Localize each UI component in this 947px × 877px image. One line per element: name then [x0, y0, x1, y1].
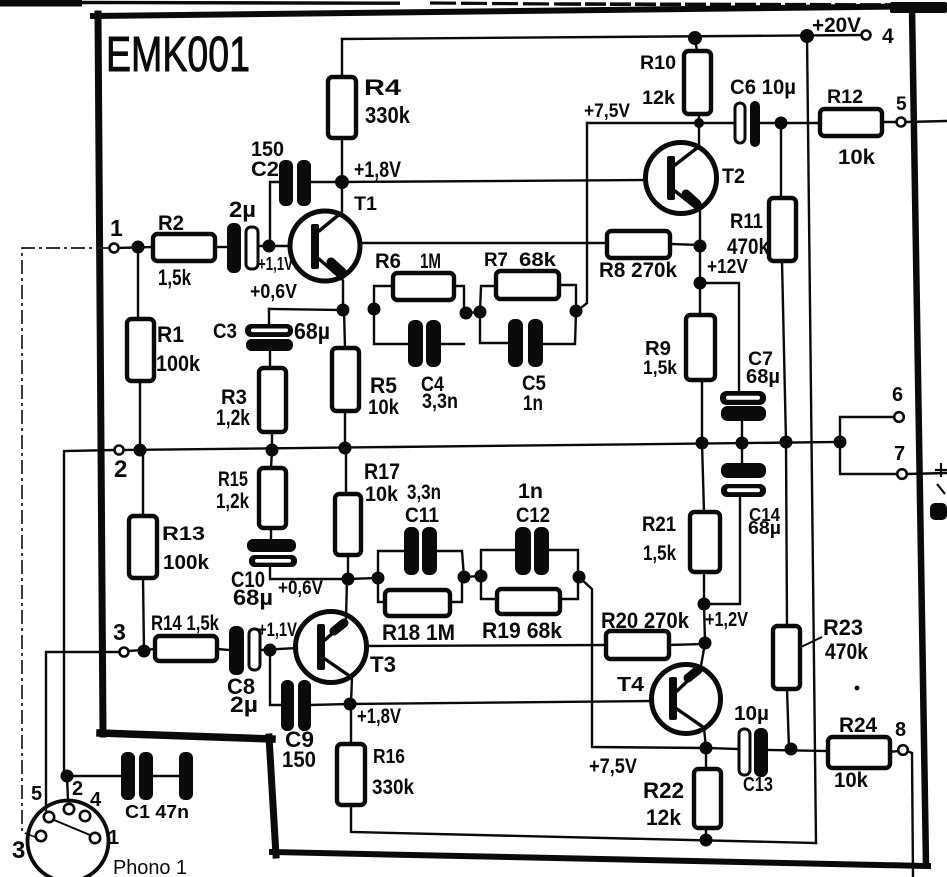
wire: terminal 8 output down right edge: [907, 751, 913, 877]
wire: R14 to capacitor C8: [217, 649, 229, 650]
svg-text:+1,8V: +1,8V: [354, 157, 401, 182]
wire: R22 top lead: [705, 748, 707, 769]
resistor R9: [686, 315, 715, 380]
svg-text:1n: 1n: [518, 480, 543, 503]
svg-text:68µ: 68µ: [233, 585, 273, 610]
wire: mid rail node to terminal 7: [840, 442, 897, 474]
node: R8 / T2 emitter junction: [694, 240, 707, 253]
wire: ground mid rail terminal 2 to node 6/7: [123, 442, 840, 450]
svg-text:+1,2V: +1,2V: [705, 609, 749, 631]
wire: R10 top lead to +20V rail: [695, 39, 697, 51]
node: C6 / R12 / R11 junction: [775, 117, 788, 130]
capacitor C14 electrolytic: [721, 463, 766, 497]
DIN pin 1: [90, 833, 100, 843]
svg-text:1M: 1M: [420, 250, 441, 273]
resistor R17: [335, 494, 361, 555]
node: T3 base junction after C8: [264, 644, 277, 657]
svg-text:68µ: 68µ: [294, 318, 330, 344]
svg-text:330k: 330k: [365, 102, 410, 128]
terminal 7: [897, 469, 907, 479]
wire: DIN link pin 5 to pin 1: [54, 820, 90, 835]
wire: node +0,6V to C3 and T1 emitter: [269, 309, 343, 310]
wire: R16 bottom lead and bottom supply rail: [351, 805, 816, 843]
svg-text:+7,5V: +7,5V: [584, 101, 630, 122]
svg-text:C3: C3: [213, 320, 237, 343]
resistor R4: [328, 77, 356, 138]
svg-text:3,3n: 3,3n: [407, 481, 441, 504]
node: terminal 3 / R13 junction: [138, 645, 151, 658]
wire: R12 right lead to terminal 5: [882, 121, 896, 123]
DIN pin 2: [64, 804, 74, 814]
wire: R15 top lead to mid rail: [271, 450, 272, 468]
scan artifact: plus scribble at right edge below terminal 7: [935, 463, 947, 494]
node: +1,2V junction at T4 emitter: [698, 598, 711, 611]
node: C1 / DIN pin 2 junction: [61, 770, 74, 783]
wire: +1,2V node to R21: [703, 572, 705, 604]
node: R19/C12 right feedback junction: [573, 571, 586, 584]
svg-text:1: 1: [108, 827, 119, 849]
svg-text:3: 3: [12, 837, 25, 864]
wire: T3 collector to lower +1,8V node: [351, 677, 352, 704]
wire: C4 right lead: [437, 343, 464, 345]
resistor R8: [607, 231, 670, 258]
node: R6/C4 right junction: [460, 307, 473, 320]
wire: R20 node to +1,2V node: [704, 604, 705, 643]
node: +12V junction at T2 emitter: [694, 277, 707, 290]
wire: R3 bottom lead to mid rail: [271, 432, 273, 450]
wire: C7 bottom plate to mid rail: [741, 421, 743, 443]
wire: R18 right lead: [448, 577, 462, 602]
capacitor C1 plates: [121, 752, 193, 800]
wire: C9 right plate to node +1,8V lower: [311, 704, 350, 705]
wire: R18 left lead: [378, 578, 384, 602]
svg-text:Phono 1: Phono 1: [113, 857, 187, 877]
wire: T2 collector to R10: [698, 112, 700, 146]
terminal 1 input: [110, 244, 119, 253]
svg-text:+12V: +12V: [707, 256, 749, 278]
svg-text:2: 2: [114, 456, 127, 483]
wire: R7 left lead: [480, 286, 496, 312]
DIN pin 3: [36, 831, 46, 841]
wire: R4 bottom lead to node +1,8V: [341, 138, 343, 182]
node: R5 / R17 mid rail junction: [339, 442, 352, 455]
wire: C12 left lead: [481, 550, 514, 576]
wire: C12 right lead: [550, 550, 578, 577]
border: right edge of schematic frame: [912, 9, 926, 864]
svg-text:+1,8V: +1,8V: [357, 705, 401, 728]
svg-text:R23: R23: [823, 615, 863, 640]
svg-text:+7,5V: +7,5V: [589, 755, 637, 778]
wire: R22 bottom lead to bottom rail: [705, 828, 707, 840]
capacitor C8 input coupling plates: [229, 626, 260, 675]
wire: terminal 1 to DIN pin 3: [22, 248, 110, 837]
wire: R21 top lead to mid rail: [702, 443, 704, 512]
capacitor C10 electrolytic: [247, 539, 297, 567]
wire: C8 to T3 base: [261, 648, 297, 650]
node: input 1 / R1 junction: [132, 241, 145, 254]
wire: T4 collector to +7,5V lower node: [704, 728, 706, 748]
svg-text:470k: 470k: [825, 639, 869, 664]
svg-text:R22: R22: [643, 778, 684, 803]
resistor R6: [393, 273, 454, 300]
capacitor C12 plates: [515, 527, 549, 575]
wire: T4 emitter to R20 node: [701, 643, 705, 666]
wire: R19 left lead: [481, 576, 496, 599]
node: T1 base junction: [263, 240, 276, 253]
wire: +20V vertical rail right side down to bottom rail: [807, 36, 816, 843]
node: R23 bottom / C13 / R24 junction: [785, 743, 798, 756]
node: terminal 2 / R1 / R13 junction: [134, 444, 147, 457]
wire: C1 right lead to stub plate: [153, 775, 179, 777]
wire: C2 right plate to node +1,8V: [310, 181, 342, 183]
wire: R6 right lead: [454, 286, 464, 313]
resistor R24: [828, 737, 890, 768]
svg-text:R6: R6: [375, 250, 401, 273]
wire: node +1,8V to T2 base: [342, 180, 646, 182]
wire: R24 right lead to terminal 8: [890, 751, 898, 752]
node: R11/R23 on mid rail: [780, 436, 793, 449]
scan artifact: top-right border corner blob: [890, 2, 947, 13]
capacitor 2u input coupling plates: [227, 223, 258, 273]
svg-text:10k: 10k: [365, 483, 398, 506]
svg-text:10k: 10k: [368, 396, 399, 419]
svg-text:10µ: 10µ: [734, 703, 769, 725]
wire: C14 top plate to mid rail: [741, 443, 743, 463]
svg-text:R8 270k: R8 270k: [599, 259, 677, 282]
DIN pin 5: [44, 812, 54, 822]
node: +7,5V lower junction at T4 collector: [700, 742, 713, 755]
svg-text:1,5k: 1,5k: [643, 542, 676, 565]
wire: terminal 3 to DIN pin 5: [46, 652, 119, 810]
svg-text:1: 1: [110, 215, 123, 241]
scan artifact: right edge blob near node 7: [930, 503, 947, 520]
resistor R1: [127, 319, 154, 381]
wire: C4 left lead: [374, 309, 408, 344]
wire: T1 emitter down to +0,6V node: [342, 281, 344, 310]
wire: C5 right lead: [542, 312, 576, 344]
node: R20 / T4 emitter junction: [699, 637, 712, 650]
svg-text:R11: R11: [730, 210, 763, 233]
wire: C10 to R15: [270, 528, 272, 539]
wire: C2 left plate down to T1 base node: [270, 182, 281, 242]
svg-text:8: 8: [895, 719, 906, 741]
border: top edge of schematic frame: [93, 6, 947, 16]
node: R7/C5 right feedback junction: [570, 305, 583, 318]
transistor T4: [652, 665, 721, 734]
resistor R5: [332, 348, 359, 411]
wire: +1,2V node to C14 bottom plate: [704, 497, 740, 604]
wire: lower +0,6V node to C10: [270, 567, 348, 579]
wire: R9 bottom lead to mid rail: [701, 380, 703, 443]
scan artifact: top edge line: [0, 0, 900, 7]
svg-text:+20V: +20V: [812, 14, 861, 37]
svg-text:68k: 68k: [519, 249, 556, 271]
wire: C11 left lead: [378, 551, 405, 578]
capacitor C2 plates: [279, 160, 311, 206]
terminal 8 output: [898, 745, 908, 755]
wire: node link between R6/C4 and R7/C5: [466, 312, 480, 313]
svg-text:100k: 100k: [163, 552, 210, 574]
node: R19/C12 left junction: [475, 570, 488, 583]
svg-text:3: 3: [113, 619, 126, 645]
resistor R2: [153, 234, 215, 261]
wire: R16 top lead: [350, 705, 352, 744]
wire: +7,5V lower node to C13: [706, 748, 739, 749]
wire: C13 to R24: [768, 750, 828, 751]
svg-text:R7: R7: [484, 249, 508, 271]
resistor R10: [684, 51, 711, 114]
wire: +7,5V feedback down to C5/R7 node: [577, 123, 587, 311]
svg-text:5: 5: [31, 783, 42, 805]
resistor R7: [496, 271, 559, 299]
wire: T3 base feedback line to R20: [366, 645, 606, 646]
wire: terminal 2 to C1 and DIN pin 2: [64, 450, 114, 801]
wire: lower feedback from T4 collector node to C12/R19 node: [580, 578, 706, 748]
node: R10 top on +20V rail: [688, 31, 702, 45]
wire: R1 bottom lead: [139, 381, 141, 450]
svg-text:12k: 12k: [646, 805, 682, 830]
border: bottom-left step vertical: [269, 737, 276, 855]
resistor R19: [497, 589, 560, 614]
svg-text:68µ: 68µ: [748, 518, 781, 538]
wire: C6 right plate to R12: [759, 122, 820, 124]
svg-text:R24: R24: [839, 714, 877, 737]
wire: R20 right lead to T4 emitter node: [669, 644, 705, 645]
wire: T1 collector up to +1,8V node: [341, 182, 343, 212]
svg-text:C6 10µ: C6 10µ: [730, 76, 796, 99]
border: bottom edge of schematic frame: [272, 852, 928, 866]
wire: +12V node to C7 top plate: [700, 283, 739, 391]
resistor R13: [129, 516, 157, 578]
svg-text:R21: R21: [642, 513, 676, 536]
transistor T2: [646, 143, 717, 214]
terminal 5 output: [897, 118, 906, 127]
wire: capacitor 2u to T1 base: [259, 245, 291, 247]
wire: R1 top lead: [137, 247, 139, 319]
svg-text:T4: T4: [617, 674, 645, 696]
wire: R17 top lead: [345, 448, 347, 494]
wire: R2 to capacitor 2u: [215, 246, 228, 248]
svg-text:T1: T1: [354, 194, 377, 215]
svg-text:R18 1M: R18 1M: [382, 620, 455, 645]
wire: lower node +1,8V to T4 base: [350, 701, 651, 704]
node: R18/C11 left junction: [372, 572, 385, 585]
svg-text:R14 1,5k: R14 1,5k: [151, 612, 219, 635]
wire: R23 bottom lead: [787, 689, 789, 749]
wire: T3 emitter to node +0,6V lower: [346, 579, 347, 618]
svg-text:R10: R10: [640, 53, 676, 74]
node: +1,8V junction at T1 collector: [335, 175, 349, 189]
wire: +7,5V node horizontal at T2 collector: [587, 122, 735, 124]
wire: R13 bottom lead: [143, 578, 144, 651]
wire: R5 bottom lead to mid rail: [344, 411, 346, 448]
svg-text:1,5k: 1,5k: [158, 265, 192, 290]
svg-text:C2: C2: [251, 158, 279, 181]
wire: +20V supply rail top: [342, 35, 862, 39]
node: R22 bottom on bottom rail: [700, 834, 713, 847]
wire: C11 right lead: [436, 551, 464, 577]
node: +0,6V junction at T1 emitter: [337, 304, 350, 317]
svg-text:+1,1V: +1,1V: [258, 254, 293, 274]
wire: R5 top lead: [344, 310, 345, 348]
svg-text:R2: R2: [158, 212, 184, 235]
wire: node link between C11/R18 and C12/R19: [464, 576, 481, 577]
node: C7/C14 on mid rail: [736, 437, 749, 450]
svg-text:1,2k: 1,2k: [216, 490, 249, 513]
wire: C3 bottom to R3: [269, 351, 271, 368]
resistor R14: [155, 636, 217, 661]
svg-text:4: 4: [882, 25, 894, 48]
resistor R23: [773, 626, 800, 689]
node: R7/C5 left junction: [474, 306, 487, 319]
svg-text:2µ: 2µ: [229, 197, 256, 222]
resistor R20: [606, 631, 669, 659]
svg-text:R5: R5: [370, 373, 397, 398]
svg-text:+0,6V: +0,6V: [278, 578, 323, 599]
wire: R11 bottom lead down to R23 top: [782, 261, 787, 626]
resistor R11: [769, 198, 796, 261]
capacitor C7 electrolytic: [720, 391, 766, 421]
svg-text:+0,6V: +0,6V: [250, 281, 298, 303]
svg-text:R20 270k: R20 270k: [601, 608, 690, 633]
DIN pin 4: [80, 811, 90, 821]
svg-text:2: 2: [72, 778, 83, 800]
wire: terminal 5 output through border: [906, 121, 947, 122]
wire: mid rail node to terminal 6: [840, 417, 893, 442]
svg-text:R4: R4: [364, 75, 402, 100]
connector Phono 1 DIN body: [28, 801, 109, 877]
capacitor C13 electrolytic plates: [739, 728, 768, 777]
svg-text:R15: R15: [218, 468, 248, 491]
svg-text:2µ: 2µ: [230, 692, 258, 717]
wire: T3 base node down to C9 left plate: [270, 650, 281, 705]
svg-text:C11: C11: [405, 504, 439, 527]
wire: R8 right lead to T2 emitter: [670, 244, 700, 245]
svg-text:100k: 100k: [156, 351, 201, 376]
resistor R21: [690, 512, 720, 572]
node: R18/C11 right junction: [458, 571, 471, 584]
wire: terminal 1 to R2: [118, 247, 153, 248]
capacitor C4 plates: [408, 320, 441, 367]
svg-text:C12: C12: [516, 504, 550, 527]
wire: C3 top stub: [268, 309, 270, 325]
node: +1,8V lower junction at T3 collector: [344, 698, 357, 711]
svg-text:12k: 12k: [642, 88, 675, 109]
svg-text:3,3n: 3,3n: [422, 390, 458, 413]
capacitor C5 plates: [508, 319, 543, 367]
svg-text:R1: R1: [157, 322, 184, 347]
svg-text:68µ: 68µ: [746, 366, 780, 388]
svg-text:T2: T2: [722, 165, 745, 188]
node: +0,6V lower junction at T3 emitter: [342, 573, 355, 586]
svg-text:C13: C13: [743, 774, 773, 796]
wire: R7 right lead: [559, 285, 576, 311]
wire: R4 top lead to +20V rail: [341, 39, 343, 77]
svg-text:10k: 10k: [838, 146, 875, 169]
svg-text:4: 4: [90, 789, 102, 811]
svg-text:R19 68k: R19 68k: [482, 618, 563, 643]
capacitor C6 electrolytic plates: [735, 101, 760, 147]
wire: R6 left lead: [374, 286, 393, 309]
terminal 2: [115, 446, 124, 455]
node: R6/C4 left junction: [368, 303, 381, 316]
wire: R19 right lead: [559, 577, 578, 599]
wire: lower +0,6V node to RC network: [348, 578, 378, 579]
svg-text:6: 6: [892, 384, 903, 406]
resistor R16: [337, 744, 365, 805]
terminal 4 +20V: [862, 31, 871, 40]
resistor R12: [820, 109, 882, 136]
svg-text:10k: 10k: [834, 769, 868, 792]
svg-text:1,2k: 1,2k: [216, 405, 251, 430]
wire: C1 left lead: [67, 775, 121, 777]
wire: R17 bottom lead: [347, 555, 349, 579]
scan artifact: small mark right of R23: [855, 686, 860, 691]
wire: T2 emitter down through nodes to R9: [699, 211, 701, 315]
node: R9 bottom on mid rail: [696, 437, 709, 450]
wire: terminal 7 output through border: [907, 473, 947, 474]
capacitor C9 plates: [281, 680, 311, 731]
svg-text:150: 150: [282, 747, 316, 772]
svg-text:R13: R13: [162, 524, 205, 545]
capacitor C3 electrolytic: [245, 324, 293, 351]
resistor R3: [259, 368, 286, 432]
wire: C5 left lead: [480, 312, 509, 343]
terminal 6: [894, 412, 904, 422]
resistor R18: [385, 590, 450, 616]
svg-text:R17: R17: [364, 459, 400, 484]
svg-text:R9: R9: [645, 338, 671, 360]
wire: R11 top lead: [780, 123, 782, 198]
svg-text:R12: R12: [827, 87, 863, 108]
node: T2 collector / +7,5V junction: [694, 118, 704, 128]
svg-text:+1,1V: +1,1V: [258, 620, 297, 641]
wire: R8 left lead to T1 base line: [360, 242, 607, 244]
svg-text:EMK001: EMK001: [106, 28, 250, 82]
border: bottom-left step horizontal: [100, 733, 272, 739]
svg-text:T3: T3: [370, 652, 396, 677]
resistor R22: [694, 769, 721, 828]
svg-text:330k: 330k: [372, 775, 414, 799]
wire: R13 top lead: [142, 450, 144, 516]
transistor T1: [290, 211, 360, 281]
svg-text:C1 47n: C1 47n: [125, 801, 189, 822]
terminal 3 input: [120, 648, 129, 657]
svg-text:R16: R16: [373, 746, 405, 768]
wire: terminal 3 to R14: [129, 649, 155, 651]
node: +20V rail to right vertical rail: [800, 29, 814, 43]
transistor T3: [296, 612, 367, 683]
resistor R15: [259, 468, 286, 528]
wire: R23 label pointer: [801, 637, 822, 647]
border: left edge of schematic frame: [98, 14, 103, 734]
node: R3 / R15 mid rail junction: [266, 444, 279, 457]
svg-text:1n: 1n: [523, 392, 543, 415]
svg-text:5: 5: [896, 94, 907, 115]
svg-text:1,5k: 1,5k: [643, 358, 677, 379]
node: terminals 6/7 branch on mid rail: [834, 436, 847, 449]
svg-text:7: 7: [894, 443, 905, 465]
capacitor C11 plates: [404, 527, 437, 575]
